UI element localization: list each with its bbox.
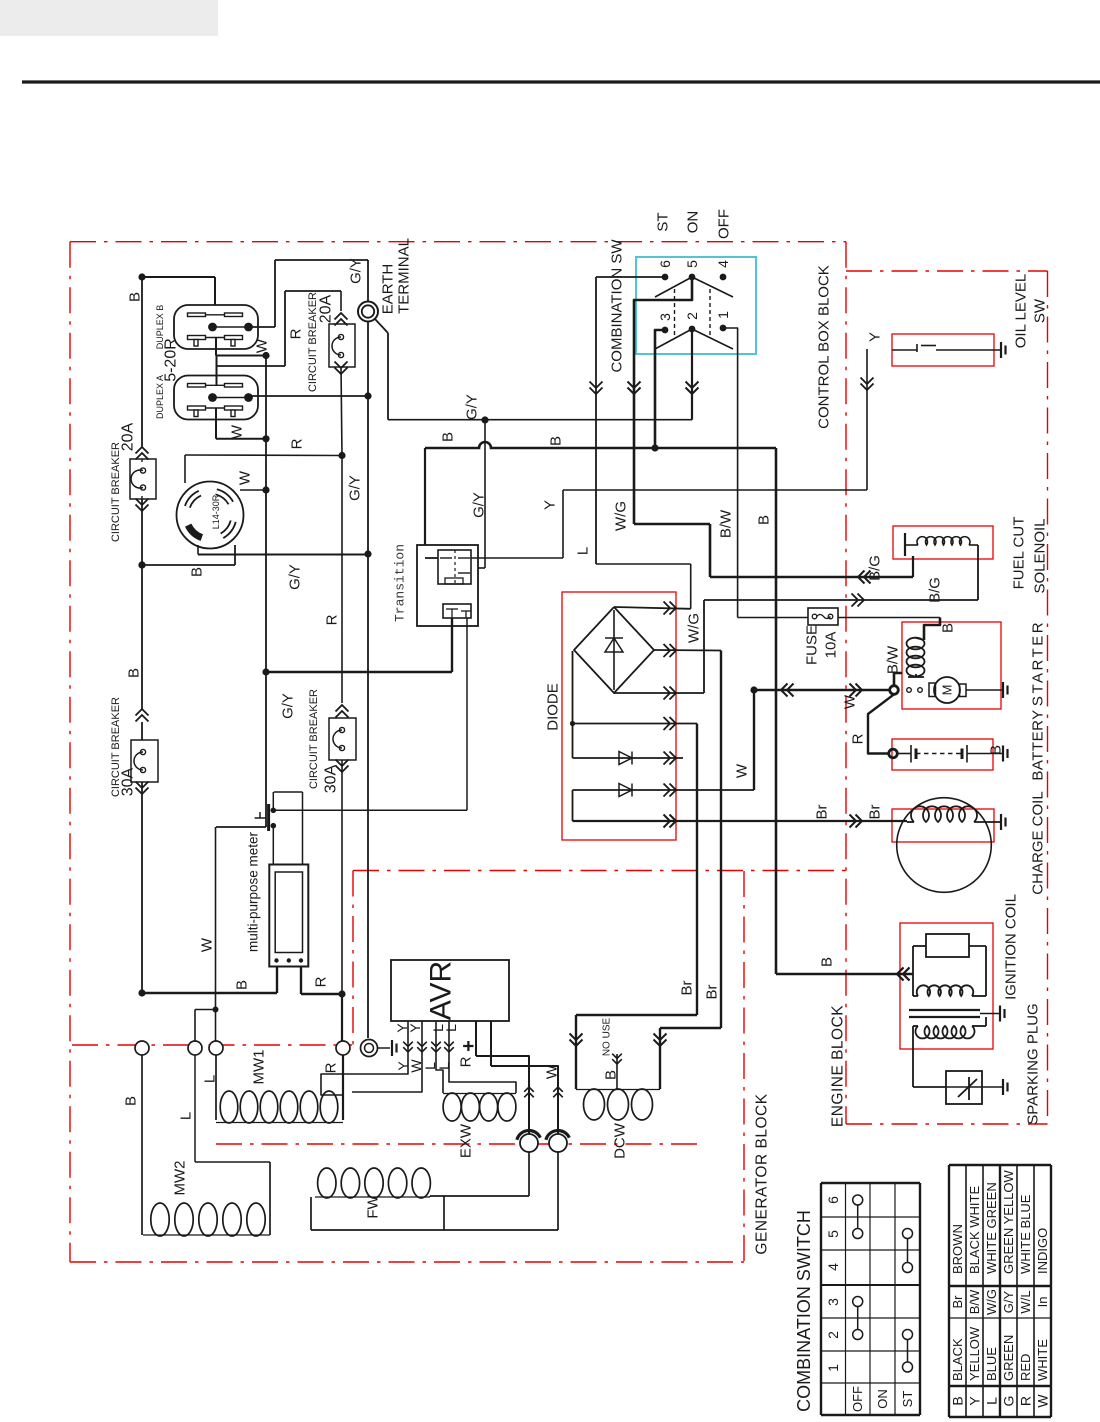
- svg-text:5: 5: [684, 260, 700, 268]
- svg-text:W: W: [229, 424, 246, 439]
- svg-text:L: L: [178, 1112, 195, 1120]
- svg-text:B: B: [548, 436, 565, 446]
- svg-text:BLUE: BLUE: [984, 1347, 999, 1381]
- svg-text:B: B: [940, 623, 957, 633]
- svg-text:WHITE BLUE: WHITE BLUE: [1018, 1194, 1033, 1274]
- svg-text:G/Y: G/Y: [348, 258, 365, 284]
- svg-text:Y: Y: [967, 1396, 983, 1406]
- svg-text:B: B: [234, 980, 251, 990]
- svg-text:EARTH: EARTH: [380, 264, 397, 315]
- svg-text:FUEL CUT: FUEL CUT: [1011, 517, 1028, 590]
- svg-text:BLACK WHITE: BLACK WHITE: [967, 1186, 982, 1274]
- svg-text:B/G: B/G: [927, 577, 944, 603]
- svg-text:TERMINAL: TERMINAL: [396, 238, 413, 314]
- svg-text:NO USE: NO USE: [602, 1018, 613, 1057]
- svg-text:W: W: [544, 1064, 561, 1079]
- svg-text:B: B: [126, 668, 143, 678]
- svg-text:FUSE: FUSE: [804, 625, 821, 665]
- svg-text:M: M: [940, 685, 955, 696]
- svg-text:W/G: W/G: [686, 613, 703, 643]
- svg-text:W/L: W/L: [1018, 1290, 1033, 1313]
- svg-text:R: R: [850, 733, 867, 744]
- svg-text:Br: Br: [867, 804, 884, 819]
- svg-text:ON: ON: [875, 1389, 890, 1409]
- svg-text:COMBINATION SW: COMBINATION SW: [609, 239, 626, 373]
- svg-text:In: In: [1035, 1297, 1050, 1308]
- svg-text:6: 6: [825, 1196, 841, 1204]
- svg-text:CIRCUIT BREAKER: CIRCUIT BREAKER: [110, 442, 122, 542]
- svg-text:Br: Br: [679, 980, 696, 995]
- svg-text:3: 3: [657, 313, 673, 321]
- svg-text:OFF: OFF: [716, 209, 733, 239]
- svg-text:4: 4: [825, 1263, 841, 1271]
- svg-text:WHITE GREEN: WHITE GREEN: [984, 1182, 999, 1274]
- svg-text:BATTERY: BATTERY: [1030, 709, 1047, 780]
- svg-text:B: B: [127, 292, 144, 302]
- svg-text:YELLOW: YELLOW: [967, 1326, 982, 1381]
- svg-text:2: 2: [684, 312, 700, 320]
- svg-text:GENERATOR BLOCK: GENERATOR BLOCK: [754, 1093, 771, 1254]
- svg-text:B/W: B/W: [885, 645, 902, 674]
- svg-text:G/Y: G/Y: [280, 693, 297, 719]
- svg-text:Transition: Transition: [393, 544, 408, 622]
- svg-text:5: 5: [825, 1230, 841, 1238]
- svg-text:R: R: [289, 438, 306, 449]
- svg-text:G/Y: G/Y: [1001, 1290, 1016, 1313]
- svg-text:B: B: [123, 1096, 140, 1106]
- svg-text:30A: 30A: [323, 764, 340, 793]
- svg-text:R: R: [313, 976, 330, 987]
- svg-text:GREEN YELLOW: GREEN YELLOW: [1001, 1169, 1016, 1274]
- svg-text:DIODE: DIODE: [545, 683, 562, 731]
- svg-text:20A: 20A: [120, 422, 137, 451]
- svg-text:2: 2: [825, 1331, 841, 1339]
- svg-text:R: R: [323, 1062, 340, 1073]
- svg-text:AVR: AVR: [425, 961, 458, 1020]
- svg-text:L: L: [984, 1397, 1000, 1405]
- svg-text:BROWN: BROWN: [950, 1224, 965, 1274]
- svg-text:R: R: [324, 614, 341, 625]
- svg-text:W: W: [254, 338, 271, 353]
- svg-text:B/G: B/G: [867, 555, 884, 581]
- svg-text:Y: Y: [542, 500, 559, 510]
- svg-text:CHARGE COIL: CHARGE COIL: [1030, 791, 1047, 894]
- svg-text:1: 1: [715, 311, 731, 319]
- svg-text:R: R: [1018, 1396, 1034, 1406]
- svg-text:IGNITION COIL: IGNITION COIL: [1003, 894, 1020, 1000]
- svg-text:G/Y: G/Y: [471, 492, 488, 518]
- svg-text:OFF: OFF: [850, 1386, 865, 1412]
- svg-text:R: R: [458, 1056, 475, 1067]
- svg-text:SOLENOIL: SOLENOIL: [1032, 518, 1049, 593]
- svg-text:+: +: [458, 1040, 480, 1052]
- svg-text:ST: ST: [655, 212, 672, 231]
- svg-text:SW: SW: [1032, 298, 1049, 323]
- svg-text:10A: 10A: [823, 632, 840, 659]
- svg-text:INDIGO: INDIGO: [1035, 1228, 1050, 1274]
- svg-text:20A: 20A: [318, 294, 335, 323]
- svg-text:4: 4: [715, 260, 731, 268]
- svg-text:B: B: [819, 957, 836, 967]
- svg-text:L: L: [202, 1075, 219, 1083]
- svg-text:W/G: W/G: [984, 1289, 999, 1315]
- svg-text:COMBINATION SWITCH: COMBINATION SWITCH: [794, 1210, 814, 1412]
- svg-text:1: 1: [825, 1364, 841, 1372]
- svg-text:Y: Y: [407, 1023, 423, 1033]
- svg-text:ST: ST: [900, 1391, 915, 1408]
- svg-text:GREEN: GREEN: [1001, 1335, 1016, 1381]
- svg-text:L14-30R: L14-30R: [211, 494, 221, 529]
- svg-text:MW1: MW1: [251, 1050, 268, 1085]
- svg-text:W: W: [1035, 1394, 1051, 1408]
- svg-text:W: W: [237, 470, 254, 485]
- svg-text:3: 3: [825, 1298, 841, 1306]
- svg-text:L: L: [443, 1024, 459, 1032]
- svg-text:B/W: B/W: [967, 1289, 982, 1314]
- svg-text:Br: Br: [814, 804, 831, 819]
- svg-text:Y: Y: [867, 332, 884, 342]
- svg-text:SPARKING PLUG: SPARKING PLUG: [1025, 1003, 1042, 1124]
- svg-text:W: W: [842, 694, 859, 709]
- svg-text:B: B: [988, 745, 1005, 755]
- svg-text:5-20R: 5-20R: [163, 338, 180, 382]
- svg-text:multi-purpose meter: multi-purpose meter: [246, 831, 261, 952]
- svg-text:G/Y: G/Y: [287, 564, 304, 590]
- svg-text:EXW: EXW: [458, 1123, 475, 1158]
- svg-text:B: B: [603, 1070, 620, 1080]
- svg-text:W: W: [734, 763, 751, 778]
- svg-text:30A: 30A: [120, 767, 137, 796]
- svg-text:W: W: [199, 937, 216, 952]
- svg-text:B/W: B/W: [718, 509, 735, 538]
- svg-text:Br: Br: [950, 1295, 965, 1309]
- svg-text:ENGINE BLOCK: ENGINE BLOCK: [830, 1005, 847, 1127]
- svg-text:R: R: [288, 328, 305, 339]
- svg-text:B: B: [189, 567, 206, 577]
- svg-text:WHITE: WHITE: [1035, 1339, 1050, 1381]
- svg-text:B: B: [440, 432, 457, 442]
- svg-text:L: L: [436, 1062, 452, 1070]
- svg-text:B: B: [756, 515, 773, 525]
- svg-text:W/G: W/G: [613, 501, 630, 531]
- svg-text:6: 6: [657, 260, 673, 268]
- svg-text:FW: FW: [365, 1195, 382, 1219]
- svg-text:L: L: [575, 547, 592, 555]
- svg-text:ON: ON: [685, 211, 702, 234]
- svg-text:DCW: DCW: [612, 1122, 629, 1159]
- svg-text:BLACK: BLACK: [950, 1338, 965, 1381]
- svg-text:Br: Br: [704, 984, 721, 999]
- svg-text:G/Y: G/Y: [347, 475, 364, 501]
- svg-text:MW2: MW2: [172, 1161, 189, 1196]
- svg-text:RED: RED: [1018, 1354, 1033, 1381]
- svg-text:STARTER: STARTER: [1030, 620, 1047, 706]
- svg-text:G/Y: G/Y: [464, 394, 481, 420]
- svg-text:CONTROL BOX BLOCK: CONTROL BOX BLOCK: [816, 265, 833, 429]
- svg-text:OIL LEVEL: OIL LEVEL: [1013, 274, 1030, 349]
- svg-text:CIRCUIT BREAKER: CIRCUIT BREAKER: [308, 689, 320, 789]
- svg-text:B: B: [950, 1396, 966, 1405]
- svg-text:G: G: [1001, 1396, 1017, 1407]
